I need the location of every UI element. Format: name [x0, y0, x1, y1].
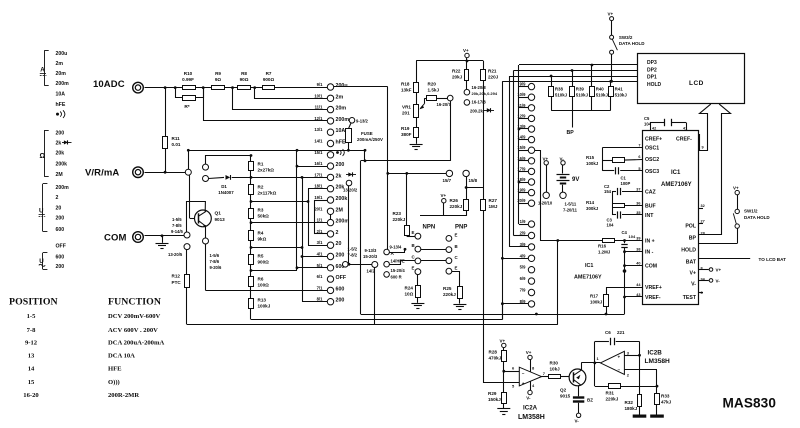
svg-text:BP: BP — [689, 236, 697, 242]
svg-text:2x117kΩ: 2x117kΩ — [258, 190, 277, 195]
svg-text:−: − — [618, 368, 621, 373]
svg-text:E: E — [412, 266, 415, 271]
svg-text:13kF: 13kF — [401, 88, 412, 93]
svg-text:R17: R17 — [590, 294, 599, 299]
svg-text:1-5/5: 1-5/5 — [172, 217, 182, 222]
svg-text:C1: C1 — [621, 176, 627, 181]
svg-text:12/1: 12/1 — [314, 116, 323, 121]
svg-text:9kΩ: 9kΩ — [258, 237, 267, 242]
svg-text:39: 39 — [636, 236, 640, 240]
svg-text:50kΩ: 50kΩ — [258, 214, 270, 219]
svg-text:OSC2: OSC2 — [645, 157, 659, 163]
svg-text:B: B — [412, 243, 415, 248]
svg-text:9Ω: 9Ω — [215, 77, 222, 82]
svg-text:C5: C5 — [644, 116, 650, 121]
svg-text:V+: V+ — [733, 186, 739, 191]
svg-text:600: 600 — [56, 255, 65, 261]
svg-text:C4: C4 — [622, 230, 628, 235]
svg-text:9-13/2: 9-13/2 — [356, 119, 369, 124]
svg-text:R7: R7 — [266, 71, 272, 76]
svg-text:41: 41 — [683, 127, 687, 131]
svg-text:13-20/5: 13-20/5 — [168, 252, 183, 257]
svg-text:AME7106Y: AME7106Y — [574, 275, 602, 281]
svg-text:V+: V+ — [526, 350, 532, 355]
svg-text:1-5/11: 1-5/11 — [565, 202, 577, 207]
svg-text:FUNCTION: FUNCTION — [108, 297, 161, 308]
svg-text:1.5kJ: 1.5kJ — [428, 88, 440, 93]
svg-text:150kJ: 150kJ — [488, 397, 501, 402]
svg-text:Q2: Q2 — [560, 388, 567, 393]
svg-text:2: 2 — [336, 230, 339, 236]
svg-text:+: + — [522, 381, 525, 386]
svg-text:20: 20 — [336, 241, 342, 247]
svg-text:V-: V- — [691, 282, 696, 288]
svg-text:R16: R16 — [598, 244, 607, 249]
svg-text:5/9: 5/9 — [520, 265, 526, 270]
svg-text:R5: R5 — [258, 254, 264, 259]
svg-text:10Ω: 10Ω — [405, 292, 414, 297]
svg-text:9-12: 9-12 — [25, 340, 38, 347]
svg-text:R22: R22 — [452, 69, 461, 74]
svg-text:9V: 9V — [572, 177, 579, 183]
svg-text:OFF: OFF — [336, 275, 347, 281]
svg-text:R41: R41 — [615, 87, 624, 92]
svg-text:DATA HOLD: DATA HOLD — [744, 215, 770, 220]
svg-text:2/1: 2/1 — [317, 229, 323, 234]
svg-text:7-8/5: 7-8/5 — [172, 223, 182, 228]
svg-text:100Ω: 100Ω — [258, 283, 270, 288]
svg-text:20: 20 — [56, 205, 62, 211]
svg-text:R32: R32 — [625, 400, 634, 405]
svg-text:R11: R11 — [172, 136, 181, 141]
svg-text:16-20/7: 16-20/7 — [437, 102, 452, 107]
svg-text:E: E — [455, 265, 458, 270]
svg-text:100kJ: 100kJ — [258, 304, 271, 309]
svg-text:Q1: Q1 — [215, 211, 222, 217]
svg-text:6/9: 6/9 — [520, 276, 526, 281]
svg-text:200: 200 — [56, 131, 65, 137]
svg-text:POL: POL — [685, 224, 696, 230]
svg-text:PTC: PTC — [172, 280, 182, 285]
svg-text:R24: R24 — [405, 286, 414, 291]
svg-text:2M: 2M — [56, 172, 63, 178]
svg-text:HOLD: HOLD — [681, 248, 696, 254]
svg-text:TO LCD BAT: TO LCD BAT — [759, 257, 787, 262]
svg-text:OFF: OFF — [56, 243, 66, 249]
svg-text:R10: R10 — [184, 71, 193, 76]
svg-text:200: 200 — [336, 253, 345, 259]
svg-text:LCD: LCD — [689, 80, 704, 87]
svg-text:VREF-: VREF- — [645, 295, 661, 301]
svg-text:10/1: 10/1 — [314, 93, 323, 98]
svg-text:4/9: 4/9 — [520, 253, 526, 258]
svg-text:U: U — [39, 208, 44, 215]
svg-text:BZ: BZ — [587, 398, 593, 403]
svg-text:R13: R13 — [258, 298, 267, 303]
svg-text:9-14/5: 9-14/5 — [171, 229, 184, 234]
svg-text:DP2: DP2 — [647, 68, 657, 74]
svg-text:15-20/3: 15-20/3 — [363, 254, 378, 259]
svg-text:R40: R40 — [596, 87, 605, 92]
svg-text:NPN: NPN — [423, 225, 436, 231]
svg-text:200m: 200m — [56, 185, 70, 191]
svg-text:15/8: 15/8 — [469, 178, 478, 183]
svg-text:20kJ: 20kJ — [452, 75, 463, 80]
svg-text:221: 221 — [617, 330, 625, 335]
svg-text:14: 14 — [28, 366, 35, 373]
svg-text:8/1: 8/1 — [317, 297, 323, 302]
svg-text:CREF+: CREF+ — [645, 137, 662, 143]
svg-text:16-20/8: 16-20/8 — [472, 85, 487, 90]
svg-text:100kJ: 100kJ — [586, 161, 599, 166]
svg-text:18/1: 18/1 — [314, 184, 323, 189]
svg-text:R15: R15 — [586, 155, 595, 160]
svg-text:2: 2 — [56, 195, 59, 201]
svg-text:20k: 20k — [56, 151, 65, 157]
svg-text:V-: V- — [575, 419, 580, 424]
svg-text:DP1: DP1 — [647, 75, 657, 81]
svg-text:2x27kΩ: 2x27kΩ — [258, 167, 275, 172]
svg-text:DCA 200uA-200mA: DCA 200uA-200mA — [108, 340, 164, 347]
svg-text:600: 600 — [56, 227, 65, 233]
svg-text:−: − — [522, 371, 525, 376]
svg-text:200: 200 — [336, 298, 345, 304]
svg-text:FUSE: FUSE — [361, 131, 373, 136]
svg-text:200m: 200m — [336, 117, 350, 123]
svg-text:200u: 200u — [56, 51, 68, 57]
svg-text:7-20/11: 7-20/11 — [563, 208, 578, 213]
svg-text:R23: R23 — [393, 211, 402, 216]
svg-text:INT: INT — [645, 213, 654, 219]
svg-text:20m: 20m — [56, 71, 67, 77]
svg-text:VREF+: VREF+ — [645, 285, 662, 291]
svg-text:R21: R21 — [488, 69, 497, 74]
svg-text:VR1: VR1 — [402, 105, 411, 110]
svg-text:2k: 2k — [336, 173, 342, 179]
svg-text:LM358H: LM358H — [645, 358, 671, 365]
svg-text:R4: R4 — [258, 231, 264, 236]
svg-text:16-20: 16-20 — [23, 392, 39, 399]
svg-text:1MJ: 1MJ — [489, 204, 498, 209]
svg-text:E: E — [412, 230, 415, 235]
svg-text:9015: 9015 — [560, 394, 571, 399]
svg-text:CREF-: CREF- — [676, 137, 692, 143]
svg-text:600: 600 — [336, 286, 345, 292]
svg-text:R2: R2 — [258, 184, 264, 189]
svg-text:13: 13 — [28, 353, 35, 360]
svg-text:510kJ: 510kJ — [596, 93, 609, 98]
svg-text:7-8/2: 7-8/2 — [348, 253, 358, 258]
svg-text:1/9: 1/9 — [520, 219, 526, 224]
svg-text:14/1: 14/1 — [314, 139, 323, 144]
svg-text:36: 36 — [636, 201, 640, 205]
svg-text:200m: 200m — [336, 219, 350, 225]
svg-text:1-5/2: 1-5/2 — [348, 247, 358, 252]
svg-text:11/1: 11/1 — [315, 105, 324, 110]
svg-text:R31: R31 — [606, 391, 615, 396]
svg-text:V+: V+ — [716, 268, 722, 273]
svg-text:200: 200 — [336, 162, 345, 168]
svg-text:200k: 200k — [56, 161, 68, 167]
svg-text:15/7: 15/7 — [443, 178, 452, 183]
svg-text:37: 37 — [636, 188, 640, 192]
svg-text:3/1: 3/1 — [317, 240, 323, 245]
svg-text:V/R/mA: V/R/mA — [85, 168, 119, 179]
svg-text:32: 32 — [701, 204, 705, 208]
svg-text:9-13/4: 9-13/4 — [390, 245, 403, 250]
svg-text:20/1: 20/1 — [314, 206, 323, 211]
svg-text:IC2A: IC2A — [523, 405, 538, 412]
svg-text:IN +: IN + — [645, 238, 655, 244]
svg-text:47kJ: 47kJ — [661, 400, 672, 405]
svg-text:13/1: 13/1 — [314, 127, 323, 132]
svg-text:510kJ: 510kJ — [615, 93, 628, 98]
svg-text:CAZ: CAZ — [645, 190, 656, 196]
svg-text:OSC1: OSC1 — [645, 146, 659, 152]
svg-text:2m: 2m — [56, 61, 64, 67]
svg-text:SW3/2: SW3/2 — [619, 35, 633, 40]
svg-text:DCA 10A: DCA 10A — [108, 353, 135, 360]
svg-text:220kJ: 220kJ — [443, 292, 456, 297]
svg-text:220kJ: 220kJ — [393, 217, 406, 222]
svg-text:Ω: Ω — [40, 153, 46, 160]
svg-text:16-17/8: 16-17/8 — [472, 100, 487, 105]
svg-text:15/1: 15/1 — [314, 150, 323, 155]
svg-text:200.2k: 200.2k — [470, 109, 483, 114]
svg-text:1-20/10: 1-20/10 — [538, 201, 553, 206]
svg-text:R18: R18 — [401, 82, 410, 87]
svg-text:7-8: 7-8 — [27, 327, 36, 334]
svg-text:OSC3: OSC3 — [645, 169, 659, 175]
svg-text:7/1: 7/1 — [317, 285, 323, 290]
svg-text:20k,20k,0.294: 20k,20k,0.294 — [472, 91, 498, 96]
svg-text:7/9: 7/9 — [520, 288, 526, 293]
svg-text:200: 200 — [56, 264, 65, 270]
svg-text:220kJ: 220kJ — [606, 397, 619, 402]
svg-text:V+: V+ — [500, 339, 506, 344]
svg-text:V+: V+ — [608, 12, 614, 17]
svg-text:510kJ: 510kJ — [576, 93, 589, 98]
svg-text:TEST: TEST — [683, 295, 697, 301]
svg-text:LM358H: LM358H — [518, 414, 545, 421]
svg-text:V-: V- — [716, 279, 721, 284]
svg-text:R38: R38 — [555, 87, 564, 92]
svg-text:100kJ: 100kJ — [590, 300, 603, 305]
svg-text:HFE: HFE — [108, 366, 122, 373]
svg-text:600 R: 600 R — [391, 274, 402, 279]
svg-text:9-20/6: 9-20/6 — [210, 265, 223, 270]
svg-text:15-20/4: 15-20/4 — [391, 268, 406, 273]
svg-text:104: 104 — [607, 223, 615, 228]
svg-text:IC1: IC1 — [671, 170, 681, 176]
svg-text:2k: 2k — [56, 140, 62, 146]
svg-text:20m: 20m — [336, 106, 347, 112]
svg-text:D1: D1 — [221, 184, 227, 189]
svg-text:C6: C6 — [605, 330, 611, 335]
svg-text:R26: R26 — [450, 198, 459, 203]
svg-text:DATA HOLD: DATA HOLD — [619, 41, 645, 46]
svg-text:180kJ: 180kJ — [625, 406, 638, 411]
svg-text:DCV 200mV-600V: DCV 200mV-600V — [108, 313, 161, 320]
svg-text:R39: R39 — [576, 87, 585, 92]
svg-text:R27: R27 — [489, 198, 498, 203]
svg-text:42: 42 — [652, 127, 656, 131]
svg-text:R14: R14 — [586, 200, 595, 205]
svg-text:1-5/6: 1-5/6 — [210, 253, 220, 258]
svg-text:R9: R9 — [215, 71, 221, 76]
svg-text:510kJ: 510kJ — [555, 93, 568, 98]
svg-text:2/9: 2/9 — [520, 231, 526, 236]
svg-text:V+: V+ — [463, 48, 469, 53]
svg-text:BP: BP — [567, 130, 575, 136]
svg-text:E: E — [455, 233, 458, 238]
svg-text:COM: COM — [645, 264, 657, 270]
svg-text:R20: R20 — [428, 82, 437, 87]
svg-text:R19: R19 — [401, 126, 410, 131]
svg-text:V-: V- — [526, 395, 531, 400]
svg-text:BUF: BUF — [645, 203, 656, 209]
svg-text:R33: R33 — [661, 394, 670, 399]
svg-text:6/1: 6/1 — [317, 274, 323, 279]
svg-text:R25: R25 — [443, 286, 452, 291]
svg-text:6: 6 — [638, 155, 640, 159]
svg-text:R1: R1 — [258, 161, 264, 166]
svg-text:R29: R29 — [488, 391, 497, 396]
svg-text:200R-2MR: 200R-2MR — [108, 392, 139, 399]
svg-text:hFE: hFE — [56, 102, 66, 108]
svg-text:1.2MJ: 1.2MJ — [598, 250, 611, 255]
svg-text:10ADC: 10ADC — [93, 79, 125, 90]
svg-text:10A: 10A — [336, 128, 346, 134]
svg-text:PNP: PNP — [455, 225, 467, 231]
svg-text:220J: 220J — [488, 75, 499, 80]
svg-text:0.01: 0.01 — [172, 142, 181, 147]
svg-text:R6: R6 — [258, 277, 264, 282]
svg-text:COM: COM — [104, 233, 126, 244]
svg-text:IN -: IN - — [645, 250, 654, 256]
svg-text:104: 104 — [644, 122, 652, 127]
svg-text:100P: 100P — [621, 181, 631, 186]
svg-text:200m: 200m — [56, 81, 70, 87]
svg-text:9-13/3: 9-13/3 — [365, 248, 378, 253]
svg-text:15: 15 — [28, 379, 35, 386]
svg-text:17/1: 17/1 — [314, 172, 323, 177]
svg-text:104: 104 — [629, 234, 636, 239]
svg-text:AME7106Y: AME7106Y — [661, 182, 692, 188]
svg-text:R12: R12 — [172, 274, 181, 279]
svg-text:HOLD: HOLD — [647, 82, 662, 88]
svg-text:1N4007: 1N4007 — [218, 190, 234, 195]
svg-text:900Ω: 900Ω — [258, 260, 270, 265]
svg-text:R*: R* — [184, 104, 189, 110]
svg-text:4/1: 4/1 — [317, 252, 323, 257]
svg-text:+: + — [618, 354, 621, 359]
svg-text:R8: R8 — [241, 71, 247, 76]
svg-text:13-20/2: 13-20/2 — [343, 188, 358, 193]
svg-text:154: 154 — [604, 189, 612, 194]
svg-text:7-8/6: 7-8/6 — [210, 259, 220, 264]
svg-text:19/1: 19/1 — [314, 195, 323, 200]
svg-text:10A: 10A — [56, 92, 66, 98]
svg-text:5/1: 5/1 — [317, 263, 323, 268]
svg-text:ACV 600V . 200V: ACV 600V . 200V — [108, 327, 158, 334]
svg-text:A: A — [40, 67, 45, 74]
svg-text:90Ω: 90Ω — [240, 77, 249, 82]
svg-text:300kJ: 300kJ — [586, 206, 599, 211]
svg-text:R30: R30 — [550, 361, 559, 366]
svg-text:1-5: 1-5 — [27, 313, 36, 320]
svg-text:BAT: BAT — [686, 259, 697, 265]
svg-text:2m: 2m — [336, 94, 344, 100]
svg-text:DP3: DP3 — [647, 60, 657, 66]
svg-text:9/9: 9/9 — [520, 82, 526, 87]
svg-text:201: 201 — [402, 111, 410, 116]
svg-text:380F: 380F — [401, 132, 412, 137]
svg-text:POSITION: POSITION — [9, 297, 58, 308]
svg-text:900Ω: 900Ω — [263, 77, 275, 82]
svg-text:IC2B: IC2B — [648, 350, 663, 357]
svg-text:B: B — [455, 244, 458, 249]
svg-text:200k: 200k — [336, 196, 348, 202]
svg-text:2M: 2M — [336, 207, 344, 213]
svg-text:200mA/250V: 200mA/250V — [357, 137, 383, 142]
svg-text:R3: R3 — [258, 208, 264, 213]
svg-text:200: 200 — [56, 216, 65, 222]
svg-text:9013: 9013 — [215, 217, 226, 222]
svg-text:10kJ: 10kJ — [550, 367, 561, 372]
svg-text:16/1: 16/1 — [314, 161, 323, 166]
svg-text:hFE: hFE — [336, 140, 346, 146]
svg-text:220kJ: 220kJ — [450, 204, 463, 209]
svg-text:R28: R28 — [489, 350, 498, 355]
svg-text:9/1: 9/1 — [317, 82, 323, 87]
svg-text:MAS830: MAS830 — [723, 396, 777, 411]
svg-text:IC1: IC1 — [585, 263, 593, 269]
svg-text:SW1/2: SW1/2 — [744, 209, 758, 214]
svg-text:V+: V+ — [690, 271, 697, 277]
svg-text:0.99F: 0.99F — [182, 77, 194, 82]
svg-text:9: 9 — [702, 146, 704, 150]
svg-text:O))): O))) — [108, 379, 120, 386]
svg-text:1/1: 1/1 — [317, 218, 323, 223]
svg-text:V+: V+ — [441, 193, 447, 198]
svg-text:470kJ: 470kJ — [489, 356, 502, 361]
